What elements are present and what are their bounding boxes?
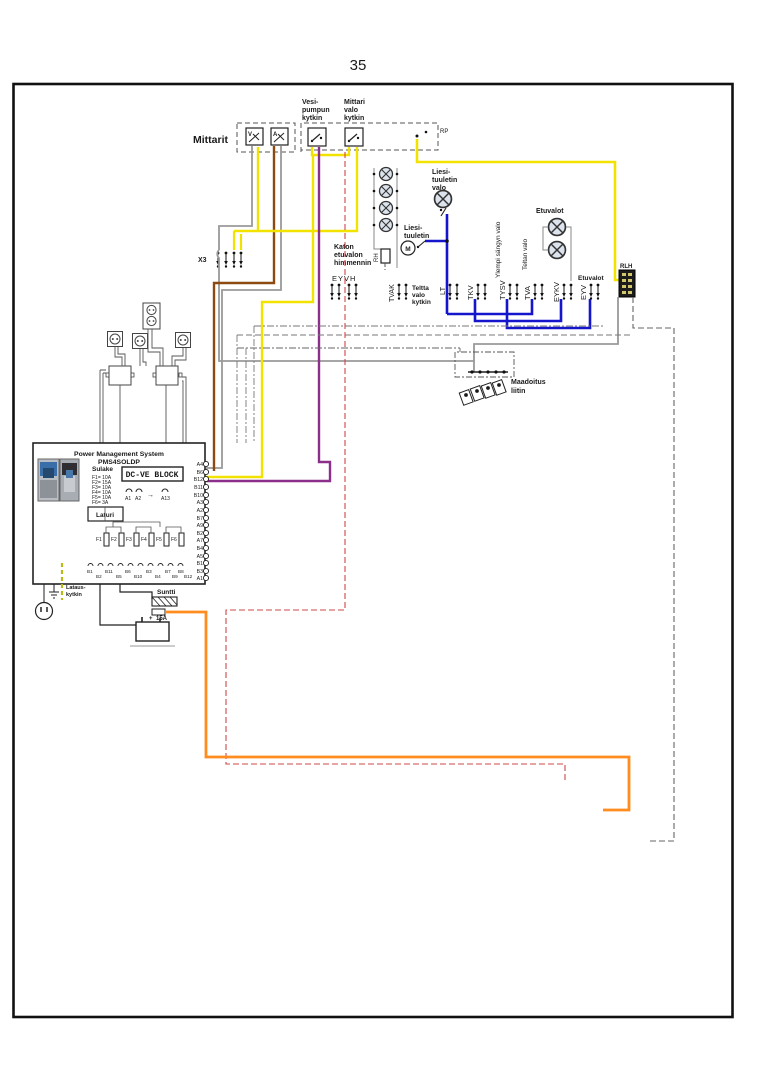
- svg-text:kytkin: kytkin: [66, 592, 83, 598]
- wire dashed va-mu from RLH down right side: [633, 297, 674, 841]
- svg-text:LT: LT: [438, 286, 447, 295]
- motor M liesi-tuuletin: [401, 241, 425, 255]
- ground bus pins maadoitus: [468, 370, 508, 373]
- svg-text:Mittari: Mittari: [344, 99, 365, 106]
- fuse list text: [92, 475, 112, 506]
- wire gray arc over X3 down to ground bus: [217, 250, 474, 372]
- lamp liesi-tuuletin valo: [435, 191, 452, 208]
- roof lamp 3: [380, 202, 393, 215]
- svg-text:Vesi-: Vesi-: [302, 99, 319, 106]
- svg-text:Katon: Katon: [334, 244, 354, 251]
- svg-text:B9: B9: [172, 574, 178, 579]
- roof lamp rail right: [396, 168, 399, 268]
- svg-text:B7: B7: [165, 569, 171, 574]
- svg-text:A7: A7: [197, 538, 203, 544]
- etuvalot bracket wires: [543, 227, 571, 281]
- svg-text:EYV: EYV: [579, 285, 588, 300]
- svg-text:TYSV: TYSV: [498, 280, 507, 300]
- wire brown A-meter to PMS B6: [214, 146, 274, 471]
- label Maadoitus liitin: [511, 379, 546, 395]
- svg-text:→: →: [147, 492, 154, 499]
- wire orange battery to bottom bus: [165, 612, 629, 810]
- ammeter A: [271, 128, 288, 145]
- svg-text:kytkin: kytkin: [302, 115, 322, 122]
- socket left: [108, 332, 123, 347]
- pins LT: [448, 284, 459, 300]
- wire dashed va-mu horizontal mid: [237, 334, 633, 336]
- wire yellow S1 left pin down to PMS B12: [206, 155, 313, 477]
- svg-text:B1: B1: [197, 561, 203, 567]
- relay box left: [106, 366, 134, 385]
- wire blue M to LT rail: [425, 240, 447, 243]
- svg-text:B10: B10: [134, 574, 143, 579]
- PMS bottom terminals: [87, 564, 193, 580]
- wire purple S1 right pin down: [206, 147, 330, 481]
- pins TKV: [476, 284, 487, 300]
- pins EYKV: [562, 284, 573, 300]
- svg-text:TVA: TVA: [523, 286, 532, 300]
- ground symbol latauskytkin: [49, 584, 59, 598]
- svg-text:F3: F3: [126, 537, 132, 543]
- fuse 15A: [149, 609, 168, 622]
- terminals A1 A2 to A13: [125, 489, 170, 502]
- wire gray V-meter to X3 rail: [219, 146, 252, 250]
- svg-text:B2: B2: [96, 574, 102, 579]
- svg-text:etuvalon: etuvalon: [334, 252, 363, 259]
- connector RLH: [619, 264, 635, 297]
- svg-text:tuuletin: tuuletin: [432, 177, 457, 184]
- switch S1 vesi-pumpun: [308, 128, 326, 146]
- wire va dash-dot upper horizontal: [254, 325, 605, 327]
- green-yellow ground wire: [61, 563, 63, 600]
- svg-text:liitin: liitin: [511, 388, 525, 395]
- svg-text:A5: A5: [197, 554, 203, 560]
- svg-text:F1: F1: [96, 537, 102, 543]
- svg-text:himmennin: himmennin: [334, 260, 371, 267]
- svg-text:V: V: [248, 132, 252, 138]
- plug circle: [36, 584, 53, 620]
- svg-text:valo: valo: [412, 292, 425, 299]
- wire blue TKV to EYKV: [475, 299, 561, 321]
- svg-text:B10: B10: [194, 493, 203, 499]
- svg-text:+: +: [149, 616, 153, 622]
- switch blade under LTV lamp: [440, 208, 446, 216]
- svg-text:A2: A2: [197, 508, 203, 514]
- resistor RH: [374, 249, 390, 270]
- svg-text:B12: B12: [194, 477, 203, 483]
- svg-text:RH: RH: [374, 253, 380, 262]
- svg-text:B2: B2: [197, 531, 203, 537]
- roof lamp rail left: [373, 168, 383, 249]
- svg-text:B11: B11: [194, 485, 203, 491]
- maadoitus dash box: [455, 352, 514, 377]
- svg-text:Ylempi sängyn valo: Ylempi sängyn valo: [495, 221, 502, 278]
- fuse internal wiring: [105, 507, 181, 533]
- svg-text:A4: A4: [197, 462, 203, 468]
- label Liesi-tuuletin valo: [432, 169, 457, 192]
- label Katon etuvalon himmennin: [334, 244, 371, 267]
- wire va-pu red dashed vertical: [226, 152, 565, 782]
- svg-text:B4: B4: [197, 546, 203, 552]
- pins TYSV: [508, 284, 519, 300]
- svg-text:B12: B12: [184, 574, 193, 579]
- pins TVA: [533, 284, 544, 300]
- label Liesi-tuuletin: [404, 225, 429, 240]
- svg-text:Lataus-: Lataus-: [66, 585, 86, 591]
- wire blue LTV lamp down: [446, 214, 449, 314]
- switch S2 mittari valo: [345, 128, 363, 146]
- roof lamp 2: [380, 185, 393, 198]
- meter group dashed box: [237, 123, 295, 152]
- pins TVAK: [397, 284, 408, 300]
- svg-text:F2: F2: [111, 537, 117, 543]
- svg-text:pumpun: pumpun: [302, 107, 330, 114]
- svg-text:M: M: [405, 246, 410, 253]
- svg-text:B5: B5: [116, 574, 122, 579]
- voltmeter V: [246, 128, 263, 145]
- svg-text:EYVH: EYVH: [332, 274, 356, 283]
- label Teltta valo kytkin: [412, 285, 431, 306]
- svg-text:Mittarit: Mittarit: [193, 134, 229, 146]
- svg-text:Power Management System: Power Management System: [74, 451, 164, 458]
- svg-text:A2: A2: [135, 496, 141, 502]
- svg-text:Liesi-: Liesi-: [432, 169, 451, 176]
- svg-text:B7: B7: [197, 516, 203, 522]
- battery: [130, 617, 175, 646]
- svg-text:Teltan valo: Teltan valo: [522, 239, 529, 270]
- svg-text:B1: B1: [87, 569, 93, 574]
- svg-text:A: A: [273, 132, 278, 138]
- wire gray A-meter right pin down to PMS: [206, 146, 281, 468]
- PMS box: [33, 443, 205, 584]
- svg-text:F5: F5: [156, 537, 162, 543]
- connector X3 pins: [216, 252, 243, 268]
- svg-text:B3: B3: [197, 569, 203, 575]
- svg-text:valo: valo: [344, 107, 358, 114]
- svg-text:Etuvalot: Etuvalot: [536, 208, 564, 215]
- wire blue TYSV to EYV: [507, 299, 590, 328]
- PMS title: [74, 451, 164, 466]
- box Laturi: [88, 507, 123, 521]
- socket right: [176, 333, 191, 348]
- wire blue LT to TVA: [447, 299, 532, 314]
- wire yellow RP to RLH: [417, 139, 621, 280]
- svg-text:B6: B6: [197, 470, 203, 476]
- etuvalot lamp 2: [549, 242, 566, 259]
- roof lamp 4: [380, 219, 393, 232]
- svg-text:Liesi-: Liesi-: [404, 225, 423, 232]
- wire yellow S1 to S2 link: [312, 147, 349, 155]
- fuses F1-F6: [96, 533, 184, 546]
- breaker photo 1: [38, 459, 59, 501]
- switch group dashed box RP: [301, 123, 448, 152]
- svg-text:Etuvalot: Etuvalot: [578, 275, 604, 282]
- svg-text:Suntti: Suntti: [157, 589, 176, 596]
- svg-text:TKV: TKV: [466, 285, 475, 300]
- PMS right edge terminals: [194, 462, 203, 582]
- svg-text:B3: B3: [146, 569, 152, 574]
- ac wiring thin lines: [100, 329, 186, 443]
- svg-text:B11: B11: [105, 569, 113, 574]
- svg-text:15A: 15A: [156, 616, 168, 622]
- shunt symbol: [152, 597, 177, 606]
- wire black PMS to shunt: [100, 584, 152, 625]
- pins EYVH: [330, 284, 358, 300]
- wire yellow V-meter down: [257, 147, 259, 231]
- svg-text:tuuletin: tuuletin: [404, 233, 429, 240]
- svg-text:F6: F6: [171, 537, 177, 543]
- node LT junction: [445, 239, 449, 243]
- wire va dash-dot bundle verticals: [237, 326, 254, 443]
- svg-text:A13: A13: [161, 496, 170, 502]
- svg-text:F6= 3A: F6= 3A: [92, 500, 109, 506]
- svg-text:B6: B6: [125, 569, 131, 574]
- breaker photo 2: [60, 459, 79, 501]
- maadoitus connectors slanted: [459, 380, 506, 406]
- label Lataus-kytkin: [66, 585, 86, 598]
- roof lamp 1: [380, 168, 393, 181]
- wire yellow X3 stubs: [234, 231, 241, 250]
- wire gray RLH ground: [474, 297, 618, 361]
- svg-text:kytkin: kytkin: [412, 299, 431, 306]
- socket double top: [143, 303, 160, 329]
- svg-text:A1: A1: [125, 496, 131, 502]
- svg-text:35: 35: [350, 57, 367, 74]
- svg-text:TVAK: TVAK: [389, 284, 396, 302]
- PMS right edge terminal loops: [203, 461, 208, 580]
- etuvalot lamp 1: [549, 219, 566, 236]
- svg-text:PMS4SOLDP: PMS4SOLDP: [98, 459, 140, 466]
- svg-text:A1: A1: [197, 576, 203, 582]
- border frame: [14, 84, 733, 1017]
- wire yellow horizontal to switch S2: [234, 147, 357, 231]
- svg-text:Maadoitus: Maadoitus: [511, 379, 546, 386]
- wire va dash-dot horizontal mid: [237, 348, 460, 352]
- relay box right: [153, 366, 182, 385]
- svg-text:Sulake: Sulake: [92, 466, 113, 473]
- svg-text:DC-VE BLOCK: DC-VE BLOCK: [126, 471, 179, 480]
- svg-text:B4: B4: [155, 574, 161, 579]
- svg-text:F4: F4: [141, 537, 147, 543]
- svg-text:A9: A9: [197, 523, 203, 529]
- svg-text:kytkin: kytkin: [344, 115, 364, 122]
- pins EYV: [589, 284, 600, 300]
- svg-text:Teltta: Teltta: [412, 285, 429, 292]
- svg-text:EYKV: EYKV: [552, 282, 561, 302]
- display DC-VE BLOCK: [122, 467, 183, 481]
- socket mid: [133, 334, 148, 349]
- svg-text:A3: A3: [197, 500, 203, 506]
- svg-text:RLH: RLH: [620, 264, 632, 270]
- svg-text:RP: RP: [440, 129, 448, 135]
- svg-text:X3: X3: [198, 257, 207, 264]
